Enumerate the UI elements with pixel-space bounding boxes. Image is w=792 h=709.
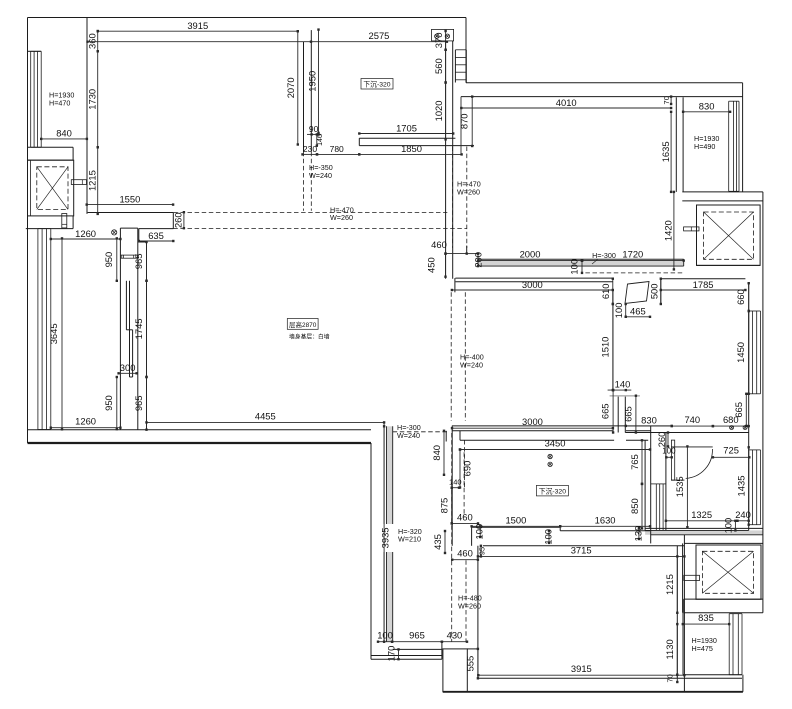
wall band above elevator xyxy=(28,147,74,160)
svg-text:95: 95 xyxy=(478,547,487,555)
dim 230 xyxy=(301,144,318,156)
wall bottom-left band xyxy=(28,430,372,443)
svg-text:560: 560 xyxy=(433,58,444,74)
dim 965 upper shaft xyxy=(133,241,148,282)
dim 850 xyxy=(629,483,643,530)
wall bottom room right outer xyxy=(683,530,685,691)
beam dashed H-480 xyxy=(465,440,467,642)
wall top-right outer xyxy=(466,82,743,84)
svg-text:1510: 1510 xyxy=(600,337,611,358)
stairs top xyxy=(455,50,466,83)
svg-text:2000: 2000 xyxy=(520,249,541,260)
svg-text:460: 460 xyxy=(457,512,473,523)
svg-text:1130: 1130 xyxy=(664,639,675,659)
svg-text:450: 450 xyxy=(426,257,437,273)
label H=1930 H=475 xyxy=(692,636,717,653)
window W-1930-490 top-right xyxy=(729,83,743,192)
dim 3915 bottom xyxy=(477,663,686,676)
wall corridor 3935 band xyxy=(384,422,393,643)
dim 870 xyxy=(458,95,473,155)
wall band below elevator xyxy=(26,216,73,229)
dim 100-965-430 xyxy=(377,630,468,643)
dim 435 xyxy=(432,530,446,554)
dim 635 xyxy=(138,230,175,242)
dim 370 xyxy=(433,30,447,51)
label H=-480 W=260 xyxy=(458,594,482,611)
svg-text:1325: 1325 xyxy=(691,509,712,520)
dim 830 lower xyxy=(625,414,673,427)
dim 2000 xyxy=(477,249,583,262)
svg-text:230: 230 xyxy=(303,144,317,154)
svg-text:1260: 1260 xyxy=(75,228,96,239)
elevator shaft top-right xyxy=(697,205,761,265)
dim 3915 top xyxy=(97,20,300,32)
dim 200 xyxy=(473,252,484,268)
svg-text:610: 610 xyxy=(600,284,611,300)
svg-text:830: 830 xyxy=(699,101,715,112)
beam dashed in 3450 room xyxy=(463,452,465,517)
symbol spots right wall xyxy=(730,426,748,430)
dim 950 upper shaft xyxy=(103,237,118,282)
svg-text:1635: 1635 xyxy=(660,141,671,162)
svg-text:3450: 3450 xyxy=(545,438,566,449)
dim 2070 xyxy=(285,30,299,146)
svg-text:1745: 1745 xyxy=(133,318,144,339)
wall shaft left line xyxy=(119,228,121,430)
label sunken-320 top xyxy=(361,79,393,90)
wall balcony divider right xyxy=(676,97,683,192)
wall bottom room top xyxy=(483,545,684,547)
symbol spots 3450 room xyxy=(548,454,552,466)
low wall H=-300 band xyxy=(478,259,684,266)
svg-text:W=260: W=260 xyxy=(458,601,481,610)
svg-text:555: 555 xyxy=(465,656,476,672)
label ceiling 2870 xyxy=(287,319,329,341)
svg-text:1260: 1260 xyxy=(75,416,96,427)
wall elevator3 head xyxy=(683,543,763,612)
svg-text:950: 950 xyxy=(103,395,114,411)
wall 1550 head xyxy=(88,212,174,214)
svg-text:1215: 1215 xyxy=(664,574,675,595)
svg-text:100: 100 xyxy=(474,524,485,540)
svg-text:300: 300 xyxy=(120,362,136,373)
svg-text:W=210: W=210 xyxy=(398,535,421,544)
wall corridor bottom step xyxy=(371,643,442,659)
dim 1510 xyxy=(600,303,615,392)
svg-text:690: 690 xyxy=(462,461,473,477)
dim 1950 xyxy=(307,28,320,134)
dim 835 xyxy=(682,612,731,625)
svg-text:4455: 4455 xyxy=(255,411,276,422)
dim 460 b xyxy=(451,548,479,561)
svg-text:665: 665 xyxy=(600,403,611,419)
svg-text:360: 360 xyxy=(87,33,98,49)
dim 840 mid xyxy=(431,430,445,476)
svg-text:740: 740 xyxy=(684,414,700,425)
dim 1215 left xyxy=(87,146,99,215)
wall 3450 room left xyxy=(446,426,452,546)
svg-text:H=490: H=490 xyxy=(694,142,715,151)
svg-text:870: 870 xyxy=(458,113,469,129)
wall right window pier xyxy=(748,283,750,530)
dim 1215 bottom xyxy=(664,555,679,614)
dim 875 xyxy=(439,487,453,525)
dim 100 r1 xyxy=(474,524,485,540)
label H=-470 W=260 b xyxy=(457,180,481,197)
wall balcony divider xyxy=(86,18,88,214)
svg-text:3000: 3000 xyxy=(522,279,543,290)
elevator shaft bottom-right xyxy=(696,545,761,599)
dim 3935 xyxy=(379,425,395,643)
dim 1450 right xyxy=(735,310,750,395)
wall central room left xyxy=(146,242,148,430)
dim 3450 xyxy=(459,438,651,451)
svg-text:3915: 3915 xyxy=(571,663,592,674)
wall central/right divider xyxy=(455,246,467,293)
dim 1020 xyxy=(433,81,447,140)
door stub shaft xyxy=(121,255,137,258)
dim 146 xyxy=(316,133,325,147)
dim 1435 right xyxy=(736,446,750,526)
wall step L-shape xyxy=(139,213,174,243)
wall window head left xyxy=(28,50,42,52)
window W-1435 right xyxy=(749,450,761,525)
dim 300 shaft xyxy=(117,362,137,374)
svg-text:660: 660 xyxy=(735,289,746,305)
dim 1325 xyxy=(665,509,739,522)
svg-text:3935: 3935 xyxy=(379,527,390,548)
dim 240 xyxy=(735,509,751,522)
svg-text:850: 850 xyxy=(629,498,640,514)
dim 100 bath xyxy=(613,303,627,319)
dim 560 xyxy=(433,49,447,84)
window W-1450 right xyxy=(749,311,761,394)
svg-text:W=260: W=260 xyxy=(457,188,480,197)
svg-text:4010: 4010 xyxy=(556,97,577,108)
door stub elevator3 xyxy=(684,575,700,580)
elevator shaft left xyxy=(28,160,74,216)
dim 3645 xyxy=(48,237,63,430)
dim 1630 xyxy=(559,514,651,527)
dim 610 xyxy=(600,278,614,306)
wall bottom window sill zone xyxy=(683,613,742,675)
dim 130 r xyxy=(632,526,643,542)
wall pier bottom-left xyxy=(443,649,478,692)
wall 3450 room right xyxy=(645,426,651,544)
svg-text:层高2870: 层高2870 xyxy=(289,320,317,329)
svg-text:1535: 1535 xyxy=(674,476,685,497)
svg-text:146: 146 xyxy=(317,134,324,146)
wall bottom room left xyxy=(477,546,479,679)
wall top-right inner xyxy=(461,96,743,98)
svg-text:1500: 1500 xyxy=(505,514,526,525)
dim 3000 lower xyxy=(451,416,614,429)
svg-text:240: 240 xyxy=(735,509,751,520)
svg-text:W=240: W=240 xyxy=(460,360,483,369)
dim 665 b xyxy=(623,395,638,434)
wall right-mid bottom band xyxy=(452,426,672,431)
svg-text:100: 100 xyxy=(569,259,580,275)
wall 140 stub xyxy=(610,396,640,433)
dim 460 mid xyxy=(431,239,479,255)
dim 100 r2 xyxy=(543,529,554,545)
wall bottom outer xyxy=(443,675,743,692)
dim 460 a xyxy=(451,512,480,525)
opening dashed verts H-470 xyxy=(453,147,467,249)
dim 1730 xyxy=(87,50,99,148)
opening dashed H-300 bottom xyxy=(393,431,448,433)
dim 1745 xyxy=(133,280,148,379)
svg-text:下沉-320: 下沉-320 xyxy=(539,487,566,495)
svg-text:140: 140 xyxy=(449,478,462,487)
wall 1510 divider xyxy=(612,291,614,391)
dim 3715 xyxy=(477,544,686,557)
svg-text:3915: 3915 xyxy=(187,20,208,31)
svg-text:1020: 1020 xyxy=(433,101,444,122)
dim 1260 lower xyxy=(50,416,122,429)
svg-text:墙身基层：白墙: 墙身基层：白墙 xyxy=(289,332,330,340)
wall bottom room floor xyxy=(478,677,742,679)
svg-text:90: 90 xyxy=(309,124,319,134)
dim 450 xyxy=(426,252,447,278)
wall shaft stub xyxy=(120,228,146,430)
svg-text:765: 765 xyxy=(629,454,640,470)
svg-text:3000: 3000 xyxy=(522,416,543,427)
dim 100 r3 xyxy=(723,518,737,534)
wall top-middle bottom band xyxy=(359,138,474,145)
dim 170 xyxy=(386,646,400,662)
dim 830 topright xyxy=(682,101,731,113)
dim 765 xyxy=(629,439,643,485)
wall 3450 room top xyxy=(460,431,651,441)
dim 950 lower shaft xyxy=(103,376,118,431)
svg-text:1850: 1850 xyxy=(401,143,422,154)
svg-text:1730: 1730 xyxy=(87,89,98,110)
label H=-320 W=210 xyxy=(398,527,422,544)
dim 555 xyxy=(465,648,480,680)
svg-text:2070: 2070 xyxy=(285,77,296,98)
svg-text:1950: 1950 xyxy=(307,71,318,92)
dim 500 xyxy=(649,278,663,306)
wall under 830-740 xyxy=(625,432,748,434)
wall right-mid top xyxy=(455,278,745,282)
label H=-300 W=240 xyxy=(397,423,421,440)
wall top-left/middle divider xyxy=(304,30,312,152)
svg-text:950: 950 xyxy=(103,252,114,268)
wall bottom room right inner xyxy=(676,546,678,679)
svg-text:840: 840 xyxy=(431,445,442,461)
opening dashed long lower xyxy=(173,228,467,230)
label H=1930 H=470 xyxy=(49,91,74,108)
wall band above elevator3 xyxy=(645,528,763,534)
label H=1930 H=490 xyxy=(694,134,719,151)
svg-text:435: 435 xyxy=(432,534,443,550)
dim 2575 top xyxy=(86,30,448,43)
dim 665 a xyxy=(600,389,615,434)
dim 1500 xyxy=(470,514,561,527)
label H=-400 W=240 xyxy=(460,353,484,370)
svg-text:1630: 1630 xyxy=(595,514,616,525)
svg-text:665: 665 xyxy=(733,402,744,418)
dim 140 bath xyxy=(608,379,632,392)
svg-text:70: 70 xyxy=(666,674,675,682)
svg-text:2575: 2575 xyxy=(369,30,390,41)
svg-text:840: 840 xyxy=(56,128,72,139)
label H=-300 leader xyxy=(592,251,616,264)
dim 680 xyxy=(712,414,750,427)
opening dashed long upper xyxy=(173,212,447,214)
svg-text:W=260: W=260 xyxy=(330,213,353,222)
dim 465 xyxy=(625,306,652,319)
wall right outer xyxy=(762,192,764,613)
dim 780 xyxy=(316,144,361,156)
svg-text:下沉-320: 下沉-320 xyxy=(363,81,390,89)
dim 1535 xyxy=(674,445,689,528)
svg-text:140: 140 xyxy=(615,379,631,390)
svg-text:W=240: W=240 xyxy=(397,431,420,440)
dim 690 xyxy=(459,448,473,488)
dim 1130 xyxy=(664,623,679,676)
wall hall bottom xyxy=(665,433,667,531)
dim 100 under2000 xyxy=(569,259,584,275)
dim 140 mid xyxy=(449,478,462,489)
dim 95 xyxy=(478,545,487,558)
stairs bottom xyxy=(651,484,666,531)
svg-text:460: 460 xyxy=(431,239,447,250)
dim 660 right xyxy=(735,282,750,312)
door D1 leaf+arc xyxy=(671,447,712,480)
dim 1550 xyxy=(86,193,175,205)
svg-text:965: 965 xyxy=(409,630,425,641)
svg-text:1705: 1705 xyxy=(396,122,417,133)
svg-text:100: 100 xyxy=(543,529,554,545)
svg-text:3645: 3645 xyxy=(48,323,59,344)
dim 260 left xyxy=(173,211,185,229)
svg-text:725: 725 xyxy=(723,445,739,456)
svg-text:780: 780 xyxy=(330,144,344,154)
svg-text:260: 260 xyxy=(656,432,667,448)
door stub elevator2 xyxy=(684,227,699,231)
window W1 left balcony xyxy=(31,51,42,147)
svg-text:460: 460 xyxy=(457,548,473,559)
door slide bath xyxy=(625,282,649,304)
svg-text:1435: 1435 xyxy=(736,476,747,497)
svg-text:500: 500 xyxy=(649,284,660,300)
svg-text:430: 430 xyxy=(447,630,463,641)
svg-text:965: 965 xyxy=(133,396,144,412)
svg-text:130: 130 xyxy=(632,526,643,542)
wall top outer xyxy=(28,17,467,19)
svg-text:100: 100 xyxy=(662,447,676,456)
window W2 left lower xyxy=(38,229,51,430)
dim 4455 xyxy=(145,411,385,424)
svg-text:1450: 1450 xyxy=(735,342,746,363)
dim 4010 xyxy=(460,97,672,109)
corner box columns xyxy=(432,29,454,41)
wall left outer xyxy=(27,18,29,444)
svg-text:H=475: H=475 xyxy=(692,644,713,653)
dim 740 xyxy=(671,414,715,427)
window W-835 bottom xyxy=(729,614,742,675)
svg-text:835: 835 xyxy=(698,612,714,623)
beam dashed H-400 xyxy=(451,292,465,421)
dim 100 door xyxy=(662,447,676,459)
label H=-350 W=240 xyxy=(309,163,333,180)
wall below elevator2 xyxy=(697,264,761,266)
dim 1260 upper xyxy=(50,228,122,240)
svg-text:830: 830 xyxy=(641,414,657,425)
wall band below elevator3 xyxy=(684,599,763,613)
svg-text:3715: 3715 xyxy=(571,544,592,555)
opening dashed H=-300 xyxy=(585,272,683,274)
wall elevator2 head band xyxy=(682,192,763,201)
dim 3000 upper xyxy=(451,279,614,291)
svg-text:100: 100 xyxy=(377,630,393,641)
dim 260 door xyxy=(656,431,669,447)
wall top-middle right band xyxy=(446,41,453,279)
wall corridor outer xyxy=(370,443,372,659)
label H=-470 W=260 a xyxy=(330,206,354,223)
door stub elevator-left bottom xyxy=(62,214,67,228)
wall top-right step xyxy=(465,18,467,83)
dim 1705 xyxy=(358,122,454,134)
label sunken-320 bottom xyxy=(536,485,568,496)
dim 1635 xyxy=(660,111,672,193)
svg-text:635: 635 xyxy=(148,230,164,241)
svg-text:665: 665 xyxy=(623,406,634,422)
svg-text:1785: 1785 xyxy=(693,279,714,290)
dim 70 bottom xyxy=(666,674,679,684)
dim 725 xyxy=(712,445,751,459)
dim 1720 xyxy=(581,249,685,262)
svg-text:1420: 1420 xyxy=(663,220,674,241)
dim 665 c xyxy=(733,393,748,428)
beam dashed corridor right xyxy=(451,433,453,642)
wall stub 260-100 xyxy=(671,440,674,480)
dim 70 topright xyxy=(662,95,672,105)
svg-text:875: 875 xyxy=(439,498,450,514)
wall bath 500 xyxy=(660,279,662,304)
svg-text:100: 100 xyxy=(723,518,734,534)
dim 1420 xyxy=(663,191,675,271)
dim 1785 xyxy=(660,279,747,291)
svg-text:965: 965 xyxy=(133,254,144,270)
svg-text:465: 465 xyxy=(630,306,646,317)
dim 90 xyxy=(307,124,321,136)
door stub elevator-left side xyxy=(71,180,86,185)
svg-text:1550: 1550 xyxy=(119,193,140,204)
dim 1850 xyxy=(358,143,463,156)
svg-text:H=-300: H=-300 xyxy=(592,251,616,260)
svg-text:260: 260 xyxy=(173,212,184,228)
svg-text:H=470: H=470 xyxy=(49,99,70,108)
svg-text:100: 100 xyxy=(613,303,624,319)
svg-text:70: 70 xyxy=(662,96,671,104)
dim 360 xyxy=(87,30,99,53)
wall 3450 room bottom xyxy=(472,527,650,546)
opening dashed H-350 verts xyxy=(304,152,312,211)
svg-text:W=240: W=240 xyxy=(309,171,332,180)
symbol spot left xyxy=(112,230,117,235)
dim 840 left xyxy=(40,128,88,140)
svg-text:170: 170 xyxy=(386,646,397,662)
svg-text:1720: 1720 xyxy=(622,249,643,260)
dim 965 lower shaft xyxy=(133,376,148,431)
svg-text:1215: 1215 xyxy=(87,170,98,191)
wall shaft partition jog xyxy=(126,281,132,377)
